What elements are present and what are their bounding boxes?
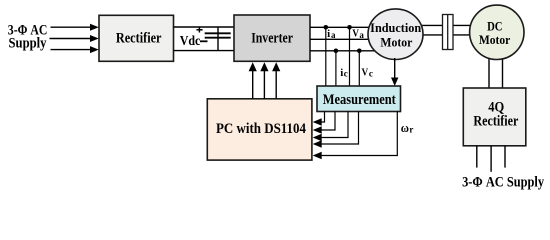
wire: supply phase A arrow into rectifier bbox=[51, 24, 99, 31]
wire: motor sensing arrow into measurement bbox=[391, 58, 398, 86]
svg-text:Vdc: Vdc bbox=[180, 33, 201, 48]
label: ic bbox=[340, 67, 348, 79]
wire: ic sense tap bbox=[335, 51, 337, 86]
svg-text:i: i bbox=[327, 28, 330, 40]
wire: phase line a (inverter to motor) bbox=[310, 26, 375, 28]
svg-text:c: c bbox=[344, 69, 348, 79]
svg-text:Induction: Induction bbox=[370, 21, 421, 35]
label: ia bbox=[327, 28, 336, 40]
wire: DC motor armature lead 2 bbox=[502, 45, 504, 88]
wire: gate signal arrow 3 (PC to inverter) bbox=[272, 62, 280, 99]
wire: measurement output 3 to PC bbox=[313, 112, 348, 142]
machine: DC Motor bbox=[470, 5, 524, 59]
wire: DC motor armature lead 1 bbox=[488, 45, 490, 88]
svg-text:r: r bbox=[409, 124, 413, 134]
label: Va bbox=[352, 27, 364, 40]
node: 3-phase AC supply label (top left) bbox=[8, 22, 48, 51]
svg-text:Rectifier: Rectifier bbox=[116, 30, 162, 46]
wire: measurement output 1 to PC bbox=[313, 112, 325, 126]
svg-text:PC with DS1104: PC with DS1104 bbox=[216, 121, 306, 137]
machine: Induction Motor bbox=[368, 9, 423, 60]
wire: gate signal arrow 1 (PC to inverter) bbox=[249, 62, 257, 99]
svg-text:DC: DC bbox=[487, 20, 502, 34]
wire: DC bus negative rail bbox=[174, 50, 235, 52]
label: plus sign bbox=[196, 27, 202, 32]
wire: phase line c (inverter to motor) bbox=[310, 50, 378, 52]
block: Measurement bbox=[317, 86, 401, 112]
wire: ia sense tap bbox=[325, 27, 327, 86]
wire: supply phase C arrow into rectifier bbox=[51, 46, 99, 53]
wire: phase line b (inverter to motor) bbox=[310, 38, 373, 40]
block: 4Q Rectifier bbox=[463, 88, 526, 146]
wire: shaft upper line (induction motor to coupling to DC motor) bbox=[420, 24, 472, 26]
wire: 4Q rectifier supply lead 2 bbox=[490, 146, 492, 172]
label: minus sign bbox=[200, 40, 208, 42]
svg-text:V: V bbox=[352, 27, 359, 39]
svg-text:Rectifier: Rectifier bbox=[473, 114, 518, 130]
wire: Va sense tap bbox=[349, 27, 351, 86]
svg-text:c: c bbox=[369, 69, 373, 79]
node: junction dot ia bbox=[324, 25, 329, 30]
node: junction dot ic bbox=[334, 49, 339, 54]
label: Vc bbox=[362, 66, 373, 78]
block: PC with DS1104 bbox=[207, 99, 312, 160]
block: Rectifier bbox=[99, 15, 174, 61]
svg-text:Inverter: Inverter bbox=[251, 31, 293, 47]
svg-text:Supply: Supply bbox=[9, 35, 48, 51]
wire: 4Q rectifier supply lead 1 bbox=[476, 146, 478, 168]
svg-text:Motor: Motor bbox=[479, 33, 511, 47]
svg-text:Motor: Motor bbox=[380, 36, 413, 50]
node: junction dot Va bbox=[347, 25, 352, 30]
svg-text:Measurement: Measurement bbox=[323, 92, 396, 108]
wire: measurement output 2 to PC bbox=[313, 112, 335, 134]
capacitor C (DC link) bbox=[205, 27, 231, 51]
wire: shaft lower line bbox=[420, 34, 472, 36]
wire: gate signal arrow 2 (PC to inverter) bbox=[260, 62, 268, 99]
block: Inverter bbox=[234, 15, 310, 61]
label: wr (rotor speed) bbox=[401, 120, 414, 135]
svg-text:a: a bbox=[331, 30, 336, 40]
coupling between motors bbox=[443, 15, 454, 50]
svg-text:V: V bbox=[362, 66, 369, 78]
svg-text:3-Φ AC Supply: 3-Φ AC Supply bbox=[462, 175, 545, 191]
wire: 4Q rectifier supply lead 3 bbox=[504, 146, 506, 168]
wire: speed signal wr to PC bbox=[313, 112, 398, 160]
wire: Vc sense tap bbox=[358, 51, 360, 86]
wire: supply phase B arrow into rectifier bbox=[50, 35, 99, 42]
wire: DC bus positive rail bbox=[174, 26, 235, 28]
wire: measurement output 4 to PC bbox=[313, 112, 359, 148]
svg-text:a: a bbox=[359, 30, 364, 40]
svg-text:ω: ω bbox=[401, 120, 409, 135]
node: junction dot Vc bbox=[357, 49, 362, 54]
